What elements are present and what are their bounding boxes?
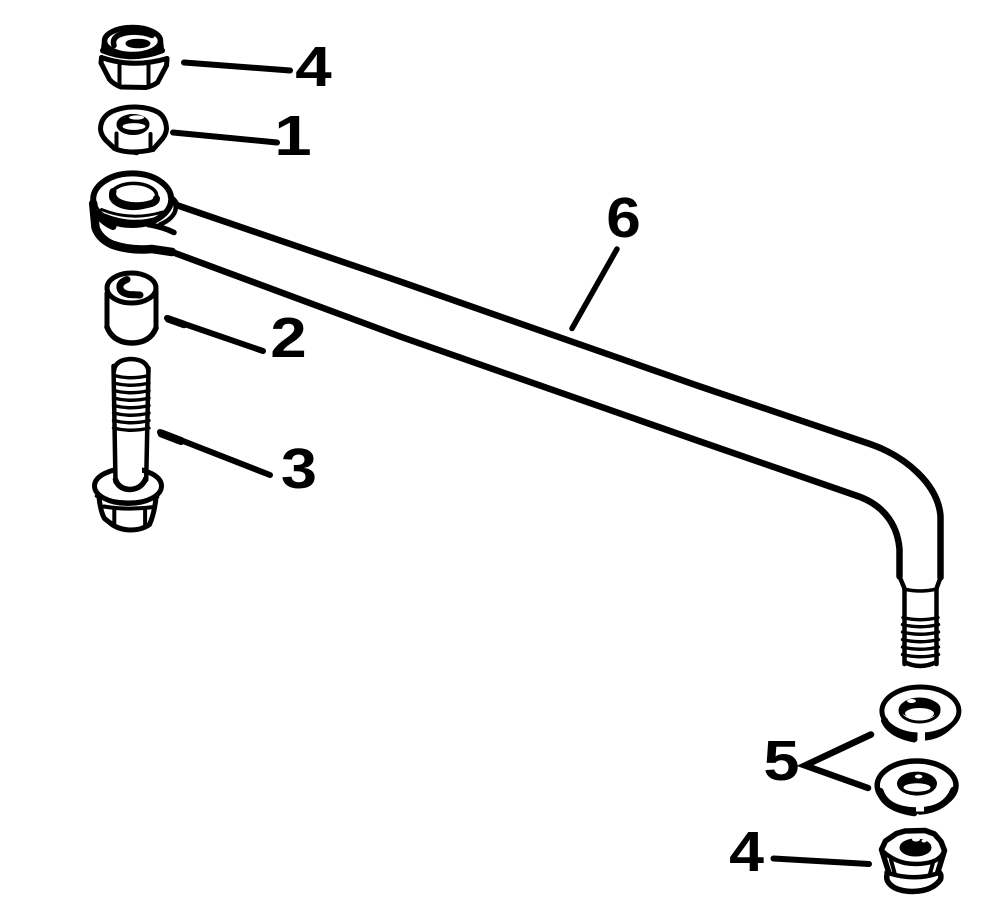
locknut 4 (top)	[101, 28, 167, 88]
spacer bushing 2	[107, 273, 156, 343]
svg-text:6: 6	[606, 185, 641, 249]
leader lines to label 5 (chevron)	[805, 735, 871, 789]
leader line to label 6	[572, 249, 617, 329]
leader line to label 4 (top)	[184, 63, 290, 71]
leader line to label 2	[167, 318, 263, 351]
svg-text:1: 1	[274, 105, 311, 168]
washer 5 (lower)	[877, 761, 956, 813]
bolt 3 flange	[95, 469, 162, 504]
flange nut 4 (bottom)	[882, 831, 945, 892]
bolt 3	[95, 359, 162, 530]
leader line to label 1	[173, 133, 277, 143]
svg-text:2: 2	[270, 306, 306, 370]
shadow under transition	[148, 225, 174, 233]
svg-text:5: 5	[763, 729, 799, 792]
link rod 6 : shaft top edge	[178, 206, 941, 578]
hex nut 1	[101, 107, 167, 154]
fillet to rod top edge	[170, 197, 178, 206]
leader line to label 4 (bottom)	[774, 859, 870, 865]
eye boss outline	[93, 204, 172, 253]
link rod 6 : shoulder neck	[900, 577, 941, 592]
ring-to-rod transition curve	[160, 199, 176, 225]
washer 5 (upper)	[882, 687, 959, 742]
svg-text:4: 4	[295, 35, 331, 99]
leader line to label 3	[160, 432, 270, 475]
rim arcs under eye	[102, 210, 163, 217]
link rod 6 : threaded stud	[903, 589, 939, 666]
bolt 3 hex head	[99, 496, 156, 531]
svg-text:4: 4	[729, 820, 764, 884]
link rod 6 : eye ring	[93, 173, 178, 252]
svg-text:3: 3	[281, 437, 317, 500]
link rod 6 : shaft bottom edge	[172, 252, 900, 577]
